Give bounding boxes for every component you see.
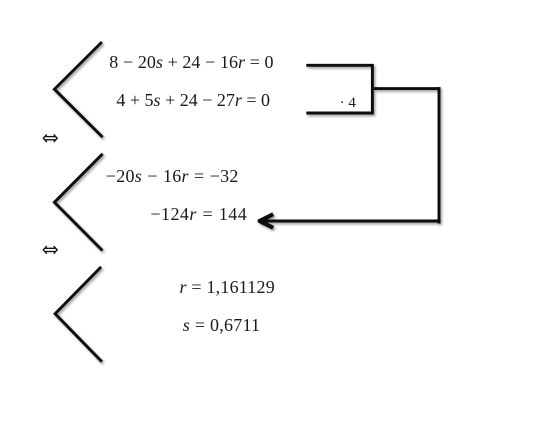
equation 4 (150, 205, 247, 223)
arrowhead pointing left at eq4 (260, 214, 274, 228)
multiply-by-4 label (340, 96, 356, 111)
equation 2 (116, 91, 270, 109)
connector wire from bracket to arrow (374, 87, 441, 90)
equation 3 (106, 167, 239, 185)
equation 5 (180, 278, 275, 296)
equivalence arrow 2 (drawn glyph) (43, 246, 57, 254)
brace 3 (left angle bracket of third system) (55, 267, 102, 362)
brace 1 (left angle bracket of first system) (54, 42, 102, 137)
brace 2 (left angle bracket of second system) (54, 154, 102, 251)
equation 6 (183, 316, 261, 334)
equation 1 (109, 53, 273, 71)
equivalence arrow 1 (drawn glyph) (43, 134, 57, 142)
right bracket grouping eq1 and eq2 (306, 65, 372, 113)
